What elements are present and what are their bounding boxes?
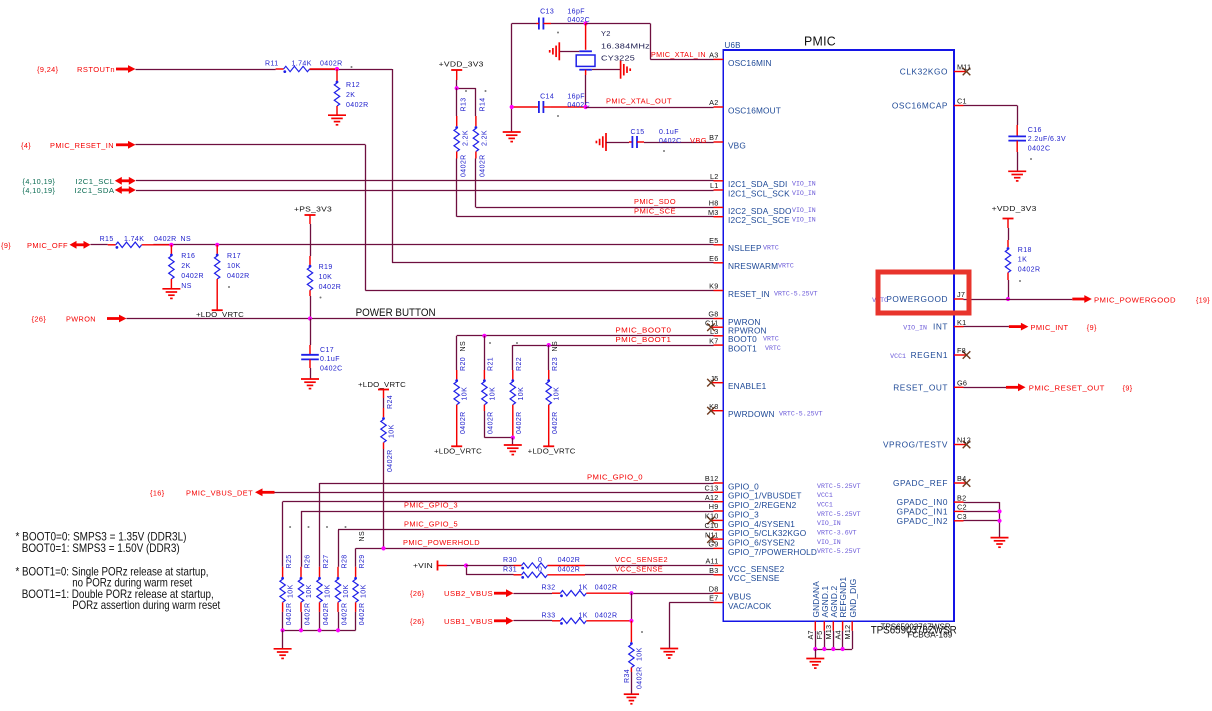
wire PMIC_BOOT1 <box>513 345 714 347</box>
ground GPADC <box>991 538 1009 548</box>
svg-text:J7: J7 <box>957 290 965 299</box>
svg-text:10K: 10K <box>319 274 333 281</box>
capacitor C16 2.2uF <box>964 106 1067 172</box>
junction BOOT0 / R21 <box>482 334 486 338</box>
resistor R21 10K <box>482 336 513 438</box>
svg-text:G8: G8 <box>708 310 718 319</box>
junction PMIC_OFF / R16 <box>169 243 173 247</box>
svg-text:10K: 10K <box>489 387 496 401</box>
svg-text:+LDO_VRTC: +LDO_VRTC <box>358 382 406 389</box>
svg-text:R27: R27 <box>323 554 330 568</box>
svg-text:G6: G6 <box>957 379 967 388</box>
svg-text:PMIC_BOOT0: PMIC_BOOT0 <box>615 325 671 334</box>
svg-text:C15: C15 <box>631 129 645 136</box>
pin N12 VPROG/TESTV <box>883 436 971 450</box>
svg-text:0402R: 0402R <box>387 449 394 472</box>
junction PMIC_OFF / R17 <box>215 243 219 247</box>
svg-text:PWRON: PWRON <box>66 315 96 324</box>
svg-text:10K: 10K <box>306 584 313 598</box>
svg-text:R22: R22 <box>516 357 523 371</box>
svg-text:BOOT1: BOOT1 <box>728 344 757 354</box>
label VCC_SENSE <box>615 564 663 573</box>
wire XTAL left rail <box>512 24 537 132</box>
pin A12 GPIO_2/REGEN2 <box>705 493 833 510</box>
svg-text:C10: C10 <box>705 521 719 530</box>
svg-text:VRTC: VRTC <box>763 336 779 343</box>
svg-text:0402C: 0402C <box>659 138 682 145</box>
svg-text:PMIC_OFF: PMIC_OFF <box>27 241 68 250</box>
label PMIC_SCE <box>634 206 676 215</box>
port RSTOUTn <box>37 65 136 74</box>
svg-text:N12: N12 <box>957 436 971 445</box>
port PMIC_OFF <box>1 241 91 250</box>
pin F8 REGEN1 <box>890 346 970 360</box>
svg-text:R28: R28 <box>341 554 348 568</box>
svg-text:PMIC_RESET_OUT: PMIC_RESET_OUT <box>1029 384 1105 393</box>
svg-text:B2: B2 <box>957 493 966 502</box>
pin D8 VBUS <box>709 584 752 601</box>
wire PMIC_RESET_IN <box>136 145 714 291</box>
svg-text:PMIC_RESET_IN: PMIC_RESET_IN <box>50 141 114 150</box>
port PMIC_INT <box>1009 323 1097 332</box>
svg-text:16pF: 16pF <box>567 8 585 15</box>
part number TPS6590376ZWSR <box>871 622 957 640</box>
note BOOT0 <box>16 530 187 555</box>
junction gpio bus <box>299 628 303 632</box>
svg-text:M3: M3 <box>708 208 719 217</box>
ground R21 R22 <box>504 438 522 455</box>
pin K10 GPIO_4/SYSEN1 <box>705 512 841 529</box>
svg-text:NS: NS <box>181 236 192 243</box>
label PMIC_GPIO_3 <box>404 501 458 510</box>
svg-text:NS: NS <box>359 531 366 542</box>
svg-text:+LDO_VRTC: +LDO_VRTC <box>434 449 482 456</box>
svg-text:C3: C3 <box>957 512 967 521</box>
svg-text:PMIC_INT: PMIC_INT <box>1031 323 1069 332</box>
label PMIC_XTAL_IN <box>651 50 706 59</box>
ground R34 <box>624 694 639 704</box>
svg-text:{26}: {26} <box>410 589 425 598</box>
pin L3 BOOT0 <box>710 327 779 344</box>
svg-text:E6: E6 <box>709 254 718 263</box>
svg-text:I2C2_SCL_SCE: I2C2_SCL_SCE <box>728 215 790 225</box>
svg-text:NSLEEP: NSLEEP <box>728 243 762 253</box>
svg-text:0.1uF: 0.1uF <box>659 129 679 136</box>
svg-text:{16}: {16} <box>150 488 165 497</box>
power +LDO_VRTC below R20 <box>434 446 482 455</box>
pin M11 CLK32KGO <box>900 63 971 77</box>
wire PMIC_BOOT0 <box>457 335 714 337</box>
svg-text:K1: K1 <box>957 318 966 327</box>
svg-text:0402C: 0402C <box>320 366 343 373</box>
wire OSC16MIN net <box>586 24 714 60</box>
junction rail / C14 <box>510 105 514 109</box>
junction gpio bus <box>336 628 340 632</box>
svg-text:PMIC_GPIO_0: PMIC_GPIO_0 <box>587 473 643 482</box>
svg-text:C16: C16 <box>1028 127 1042 134</box>
svg-text:PMIC_VBUS_DET: PMIC_VBUS_DET <box>186 488 253 497</box>
wire GPADC_IN2 <box>964 520 1000 522</box>
power +LDO_VRTC above R24 <box>358 382 406 398</box>
svg-text:PMIC_GPIO_3: PMIC_GPIO_3 <box>404 501 458 510</box>
svg-text:GPIO_7/POWERHOLD: GPIO_7/POWERHOLD <box>728 547 817 557</box>
resistor R19 10K <box>307 256 341 319</box>
svg-text:CLK32KGO: CLK32KGO <box>900 67 948 77</box>
svg-text:B12: B12 <box>705 474 719 483</box>
svg-text:+PS_3V3: +PS_3V3 <box>294 207 332 214</box>
resistor R30 0ohm <box>466 557 585 569</box>
ground VAC/ACOK <box>660 649 678 659</box>
svg-text:{26}: {26} <box>410 617 425 626</box>
svg-text:VCC1: VCC1 <box>817 502 833 509</box>
resistor R25 10K <box>280 554 295 630</box>
svg-text:PMIC_GPIO_5: PMIC_GPIO_5 <box>404 519 458 528</box>
svg-text:0402R: 0402R <box>595 585 618 592</box>
wire PMIC_VBUS_DET <box>275 492 714 494</box>
svg-text:VIO_IN: VIO_IN <box>792 181 816 188</box>
junction PWRON / R19 / C17 <box>308 316 312 320</box>
stray dots R13 R14 <box>465 90 487 92</box>
port PMIC_POWERGOOD <box>1072 295 1210 304</box>
svg-text:N11: N11 <box>705 530 718 539</box>
svg-text:INT: INT <box>933 322 948 332</box>
pin B3 VCC_SENSE <box>709 566 780 583</box>
svg-text:OSC16MIN: OSC16MIN <box>728 58 772 68</box>
svg-text:VRTC-5.25VT: VRTC-5.25VT <box>817 483 861 490</box>
svg-text:ENABLE1: ENABLE1 <box>728 381 767 391</box>
svg-text:PORz assertion during warm res: PORz assertion during warm reset <box>72 598 221 612</box>
resistor R24 10K <box>381 395 396 472</box>
svg-text:VBG: VBG <box>690 136 707 145</box>
wire R24 to PMIC_POWERHOLD <box>383 449 385 548</box>
ground C16 <box>1008 171 1026 181</box>
pin G6 RESET_OUT <box>893 379 967 393</box>
wire OSC16MOUT net <box>586 107 714 109</box>
ground R16 <box>162 289 180 299</box>
svg-text:R11: R11 <box>265 61 279 68</box>
svg-text:VRTC-5.25VT: VRTC-5.25VT <box>817 548 861 555</box>
port I2C1_SCL <box>23 177 136 186</box>
wire VAC/ACOK to ground <box>669 603 713 649</box>
svg-text:PWRDOWN: PWRDOWN <box>728 409 775 419</box>
power +LDO_VRTC below R17 <box>196 310 244 319</box>
pin K1 INT <box>903 318 966 332</box>
pin M3 I2C2_SCL_SCE <box>708 208 816 225</box>
pin B4 GPADC_REF <box>893 474 970 488</box>
pin E6 NRESWARM <box>709 254 794 271</box>
svg-text:VIO_IN: VIO_IN <box>817 520 841 527</box>
wire PMIC_POWERGOOD <box>964 299 1073 301</box>
ground C17 <box>301 379 319 389</box>
wire GPADC_IN1 <box>964 511 1000 513</box>
svg-text:F8: F8 <box>957 346 966 355</box>
wire I2C1_SCL <box>136 180 714 182</box>
svg-text:R13: R13 <box>461 97 468 111</box>
wire R13 to M3 <box>457 159 714 217</box>
svg-text:VCC_SENSE: VCC_SENSE <box>615 564 663 573</box>
pin E7 VAC/ACOK <box>709 594 772 611</box>
junction OSC16MIN / C13 / Y2 <box>584 21 588 25</box>
wire Y2 top to ground <box>560 51 579 53</box>
pin C11 RPWRON <box>705 318 767 335</box>
svg-text:0402R: 0402R <box>359 603 366 626</box>
svg-text:2K: 2K <box>346 92 355 99</box>
svg-text:I2C1_SCL: I2C1_SCL <box>76 177 115 186</box>
svg-text:0402R: 0402R <box>460 411 467 434</box>
svg-text:BOOT0=1: SMPS3 = 1.50V (DDR3): BOOT0=1: SMPS3 = 1.50V (DDR3) <box>22 541 180 555</box>
wire RSTOUTn <box>136 69 714 263</box>
wire PWRON / POWER BUTTON <box>127 318 714 320</box>
resistor R29 10K <box>353 531 368 630</box>
label PMIC_XTAL_OUT <box>606 97 672 106</box>
svg-text:M11: M11 <box>957 63 971 72</box>
resistor R12 2K pulldown <box>334 69 368 115</box>
resistor R33 1K <box>542 612 632 625</box>
svg-text:2K: 2K <box>181 263 190 270</box>
svg-text:1.74K: 1.74K <box>292 61 312 68</box>
wire PMIC_POWERHOLD <box>356 548 714 566</box>
ground GPIO resistors <box>274 630 292 658</box>
svg-text:PMIC_POWERHOLD: PMIC_POWERHOLD <box>403 538 480 547</box>
wire +VIN to R30 R31 <box>447 566 467 575</box>
stray dots R21 R22 <box>489 342 518 344</box>
port PMIC_VBUS_DET <box>150 488 275 497</box>
wire PMIC_INT <box>964 326 1009 328</box>
svg-text:PMIC_POWERGOOD: PMIC_POWERGOOD <box>1094 296 1176 305</box>
label PMIC_GPIO_0 <box>587 473 643 482</box>
junction POWERGOOD / R18 <box>1006 297 1010 301</box>
wire PMIC_RESET_OUT <box>964 387 1007 389</box>
pin K8 PWRDOWN <box>707 402 822 419</box>
junction GND bus <box>841 647 845 651</box>
port PWRON <box>32 315 127 324</box>
svg-text:OSC16MOUT: OSC16MOUT <box>728 105 781 115</box>
pin M13 AGND.2 <box>824 585 839 649</box>
pin A4 REFGND1 <box>833 577 848 649</box>
port PMIC_RESET_OUT <box>1006 383 1133 392</box>
svg-text:GPADC_REF: GPADC_REF <box>893 478 948 488</box>
svg-text:VCC1: VCC1 <box>817 492 833 499</box>
wire VCC_SENSE2 <box>585 565 714 567</box>
pin B12 GPIO_0 <box>705 474 861 491</box>
svg-text:USB2_VBUS: USB2_VBUS <box>444 589 493 598</box>
capacitor C15 0.1uF <box>606 129 714 152</box>
ground XTAL rail <box>503 132 521 142</box>
svg-text:C13: C13 <box>540 8 554 15</box>
port PMIC_RESET_IN <box>21 141 136 150</box>
pin N11 GPIO_6/SYSEN2 <box>705 530 841 547</box>
svg-text:B4: B4 <box>957 474 966 483</box>
svg-text:J5: J5 <box>710 374 718 383</box>
power +PS_3V3 <box>294 207 332 225</box>
junction GND bus <box>822 647 826 651</box>
svg-text:2.2uF/6.3V: 2.2uF/6.3V <box>1028 136 1066 143</box>
resistor R20 10K <box>454 336 469 446</box>
svg-text:VRTC-5.25VT: VRTC-5.25VT <box>774 290 818 297</box>
svg-text:PMIC_XTAL_OUT: PMIC_XTAL_OUT <box>606 97 672 106</box>
svg-text:R18: R18 <box>1018 247 1032 254</box>
junction gpio bus <box>281 628 285 632</box>
svg-text:POWER BUTTON: POWER BUTTON <box>356 307 436 319</box>
pin H9 GPIO_3 <box>709 502 861 519</box>
svg-text:VIO_IN: VIO_IN <box>903 325 927 332</box>
svg-text:GND_DIG: GND_DIG <box>848 579 858 618</box>
svg-text:1.74K: 1.74K <box>124 236 144 243</box>
svg-text:10K: 10K <box>325 584 332 598</box>
svg-text:RSTOUTn: RSTOUTn <box>77 65 115 74</box>
svg-text:0402R: 0402R <box>461 154 468 177</box>
ground Y2 bottom (right) <box>621 61 631 79</box>
wire USB1_VBUS <box>514 620 553 622</box>
svg-text:M13: M13 <box>824 625 833 640</box>
svg-text:0402R: 0402R <box>154 236 177 243</box>
svg-text:PMIC_SCE: PMIC_SCE <box>634 206 676 215</box>
power +VDD_3V3 (right) <box>992 206 1037 228</box>
svg-text:R23: R23 <box>552 357 559 371</box>
junction GPADC_IN1 node <box>997 509 1001 513</box>
label PMIC_BOOT0 <box>615 325 671 334</box>
junction +VDD_3V3 junction <box>455 86 459 90</box>
svg-text:VCC_SENSE2: VCC_SENSE2 <box>615 555 668 564</box>
svg-text:USB1_VBUS: USB1_VBUS <box>444 617 493 626</box>
svg-text:R33: R33 <box>542 612 556 619</box>
svg-text:R20: R20 <box>460 357 467 371</box>
wire +PS_3V3 to R19 <box>310 224 312 256</box>
svg-text:NS: NS <box>181 283 192 290</box>
svg-text:VCC_SENSE: VCC_SENSE <box>728 573 780 583</box>
svg-text:R16: R16 <box>181 253 195 260</box>
svg-text:0402R: 0402R <box>595 612 618 619</box>
svg-text:RESET_IN: RESET_IN <box>728 289 770 299</box>
svg-text:C14: C14 <box>540 93 554 100</box>
svg-text:0402C: 0402C <box>1028 146 1051 153</box>
pin J5 ENABLE1 <box>707 374 766 391</box>
label POWER BUTTON <box>356 307 436 319</box>
wire PMIC_GPIO_0 <box>320 483 714 567</box>
wire VBUS vertical <box>631 593 633 621</box>
svg-text:0.1uF: 0.1uF <box>320 356 340 363</box>
svg-text:0402R: 0402R <box>1018 267 1041 274</box>
pin L1 I2C1_SCL_SCK <box>710 181 816 198</box>
power +LDO_VRTC below R23 <box>528 446 576 455</box>
wire VBUS to pin D8 <box>631 593 713 595</box>
svg-text:0: 0 <box>538 557 542 564</box>
junction BOOT1 / R23 <box>547 343 551 347</box>
svg-text:VRTC: VRTC <box>778 263 794 270</box>
svg-text:{19}: {19} <box>1196 296 1210 305</box>
resistor R28 10K <box>335 554 350 630</box>
svg-text:10K: 10K <box>343 584 350 598</box>
svg-text:A12: A12 <box>705 493 719 502</box>
resistor R31 0ohm <box>466 566 585 579</box>
svg-text:+VDD_3V3: +VDD_3V3 <box>439 61 484 68</box>
svg-text:R25: R25 <box>286 554 293 568</box>
svg-text:0402R: 0402R <box>304 603 311 626</box>
pin G9 GPIO_7/POWERHOLD <box>708 540 860 557</box>
svg-text:M12: M12 <box>843 625 852 640</box>
pin J7 POWERGOOD <box>872 290 965 304</box>
svg-text:2.2K: 2.2K <box>463 130 470 146</box>
svg-text:10K: 10K <box>361 584 368 598</box>
resistor R14 2.2K pullup <box>473 97 489 177</box>
svg-text:{9}: {9} <box>1 241 11 250</box>
label VBG <box>690 136 707 145</box>
svg-text:L2: L2 <box>710 172 719 181</box>
pin L2 I2C1_SDA_SDI <box>710 172 816 189</box>
svg-text:0402R: 0402R <box>480 154 487 177</box>
svg-text:0402R: 0402R <box>558 557 581 564</box>
svg-text:R26: R26 <box>304 554 311 568</box>
wire PMIC_GPIO_2 <box>283 502 714 567</box>
svg-text:1K: 1K <box>1018 257 1027 264</box>
pin C13 GPIO_1/VBUSDET <box>705 484 833 501</box>
svg-text:Y2: Y2 <box>601 29 611 38</box>
wire USB2_VBUS <box>514 593 553 595</box>
svg-text:C13: C13 <box>705 484 719 493</box>
resistor R15 1.74K NS <box>100 236 191 249</box>
svg-text:R17: R17 <box>227 253 241 260</box>
wire Y2 bottom to ground <box>592 69 620 71</box>
stray dots R25-R28 <box>289 526 346 528</box>
svg-text:I2C1_SDA: I2C1_SDA <box>75 186 115 195</box>
svg-text:16.384MHz: 16.384MHz <box>601 41 650 50</box>
svg-text:GPADC_IN2: GPADC_IN2 <box>897 516 948 526</box>
svg-text:REGEN1: REGEN1 <box>911 350 948 360</box>
svg-text:L3: L3 <box>710 327 719 336</box>
pin C3 GPADC_IN2 <box>897 512 967 526</box>
svg-text:VIO_IN: VIO_IN <box>792 207 816 214</box>
pin C1 OSC16MCAP <box>892 97 967 111</box>
pin B2 GPADC_IN0 <box>897 493 967 507</box>
power +VIN <box>413 561 447 571</box>
pin F5 AGND.1 <box>815 585 830 649</box>
ground C15 (left) <box>596 133 606 151</box>
svg-text:RESET_OUT: RESET_OUT <box>893 382 948 392</box>
svg-text:0402R: 0402R <box>286 603 293 626</box>
svg-text:R14: R14 <box>480 97 487 111</box>
label PMIC_POWERHOLD <box>403 538 480 547</box>
ground under PMIC <box>806 649 824 668</box>
resistor R34 10K pulldown <box>624 621 643 694</box>
svg-text:B3: B3 <box>709 566 718 575</box>
svg-text:1K: 1K <box>579 585 588 592</box>
label VCC_SENSE2 <box>615 555 668 564</box>
wire R14 to H8 <box>476 159 714 208</box>
junction PMIC_POWERHOLD / R24 <box>381 546 385 550</box>
pin M12 GND_DIG <box>843 579 858 649</box>
svg-text:0: 0 <box>538 566 542 573</box>
svg-text:0402R: 0402R <box>181 273 204 280</box>
wire VCC_SENSE <box>585 574 714 576</box>
svg-text:0402R: 0402R <box>319 284 342 291</box>
note BOOT1 <box>16 564 221 612</box>
svg-text:R29: R29 <box>359 554 366 568</box>
svg-text:E7: E7 <box>709 594 718 603</box>
svg-text:VIO_IN: VIO_IN <box>792 217 816 224</box>
svg-text:K8: K8 <box>709 402 718 411</box>
svg-text:1K: 1K <box>579 612 588 619</box>
svg-text:0402R: 0402R <box>341 603 348 626</box>
svg-text:A4: A4 <box>833 630 842 639</box>
svg-text:10K: 10K <box>462 387 469 401</box>
svg-text:10K: 10K <box>518 387 525 401</box>
svg-text:K9: K9 <box>709 282 718 291</box>
label PMIC_GPIO_5 <box>404 519 458 528</box>
pin G8 PWRON <box>708 310 760 327</box>
svg-text:10K: 10K <box>227 263 241 270</box>
svg-text:H8: H8 <box>709 199 719 208</box>
svg-text:0402R: 0402R <box>227 273 250 280</box>
